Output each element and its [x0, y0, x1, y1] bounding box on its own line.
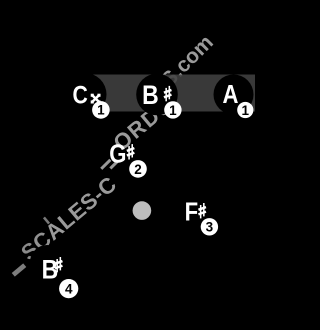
fret inlay dot [133, 201, 152, 220]
svg-text:3: 3 [206, 220, 214, 235]
fret band [85, 75, 255, 112]
finger badge 4 on B# (bottom) [59, 279, 78, 298]
note name B# (bottom) [42, 255, 63, 285]
note disc A [214, 75, 254, 115]
svg-text:B: B [142, 80, 159, 110]
note disc Cx [64, 73, 107, 116]
svg-text:2: 2 [134, 162, 142, 177]
note name F# [185, 198, 207, 227]
svg-text:1: 1 [97, 103, 105, 118]
watermark partial letter wedge bottom-left [12, 263, 27, 276]
finger badge 3 on F# [201, 218, 218, 235]
note name B# (top) [142, 80, 172, 110]
svg-text:4: 4 [65, 282, 73, 297]
finger badge 1 on A [237, 102, 253, 118]
finger badge 1 on Cx [92, 101, 110, 119]
svg-text:F: F [185, 198, 198, 227]
svg-text:1: 1 [242, 103, 250, 118]
watermark artifact stroke above A [43, 217, 50, 225]
note name G# [109, 140, 135, 169]
svg-text:B: B [42, 255, 59, 285]
note disc B# (bottom) [30, 245, 64, 279]
svg-text:G: G [109, 140, 126, 169]
note disc B# (top) [136, 74, 178, 116]
finger badge 2 on G# [129, 160, 147, 178]
watermark fragment SCALES-CH [16, 31, 218, 266]
finger badge 1 on B# (top) [164, 101, 181, 118]
svg-text:A: A [223, 81, 239, 110]
svg-text:C: C [73, 81, 89, 109]
note name Cx [73, 81, 101, 109]
watermark partial H strokes (tile-clipped letter) [100, 159, 118, 170]
svg-text:1: 1 [169, 103, 177, 118]
note name A [223, 81, 239, 110]
